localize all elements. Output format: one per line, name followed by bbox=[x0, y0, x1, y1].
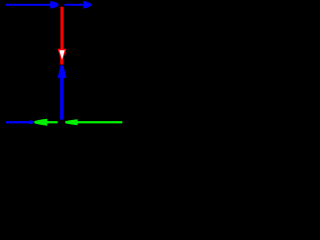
central red down arrow with open (white-filled) head bbox=[58, 7, 67, 65]
bottom inner green arrow (points left) bbox=[34, 119, 57, 126]
top-right blue velocity arrow (points right) bbox=[64, 1, 91, 9]
bottom-left small blue arrow (points right) bbox=[6, 120, 34, 124]
background bbox=[0, 0, 127, 129]
top-left blue velocity arrow (points right) bbox=[6, 1, 59, 9]
central blue up arrow (solid head, blunt tip) bbox=[58, 65, 67, 119]
bottom-right long green arrow (points left) bbox=[65, 119, 122, 125]
